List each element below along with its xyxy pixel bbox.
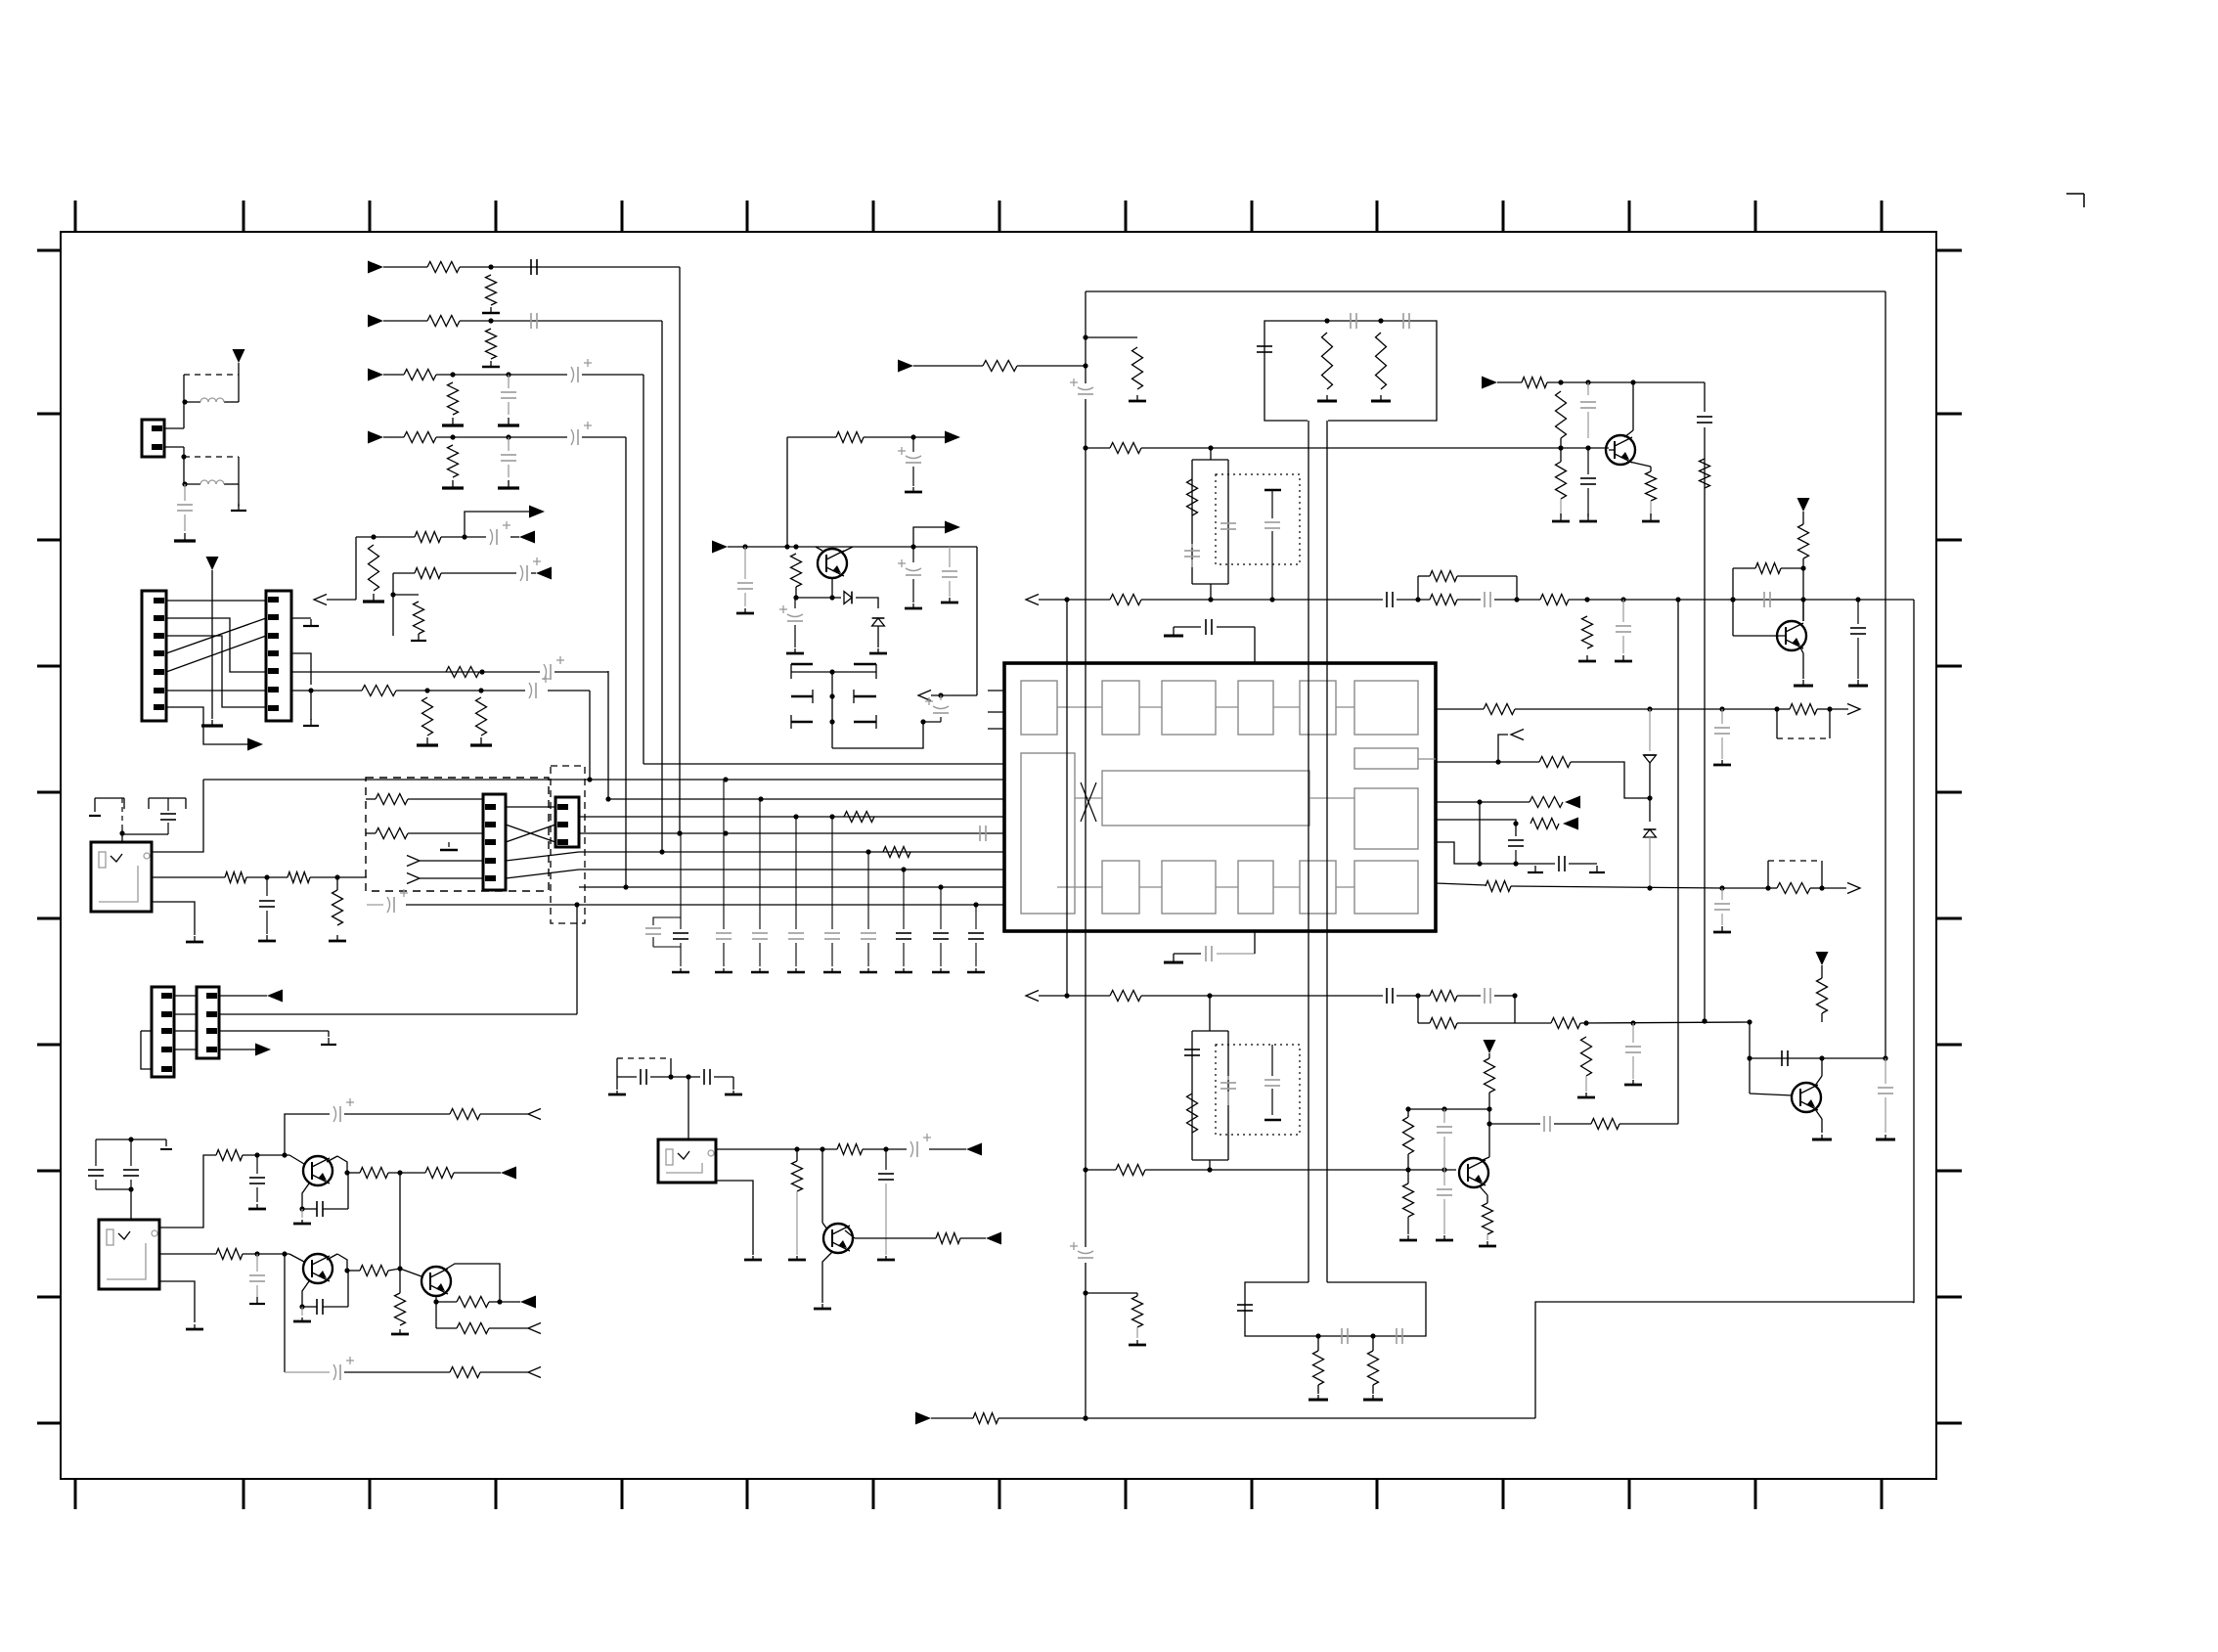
ground J1 — [186, 936, 203, 942]
ground C107 — [174, 533, 196, 541]
ground R112 — [411, 634, 426, 641]
IC block amp2 — [1162, 861, 1216, 914]
resistor R128 — [1522, 378, 1547, 388]
resistor R167 — [450, 1367, 480, 1378]
wire 705 mid — [396, 690, 525, 692]
capacitor C145 — [1220, 1076, 1236, 1105]
wire row1196 — [1086, 1169, 1116, 1171]
capacitor C136 — [1764, 592, 1770, 607]
wire row613d — [1494, 597, 1540, 602]
wire row1282 — [243, 1251, 289, 1256]
capacitor C175 — [160, 798, 176, 834]
resistor R147 — [1483, 1203, 1493, 1234]
capacitor C129 — [1220, 523, 1236, 529]
switch bracket upper2 — [149, 798, 186, 809]
wire J3 gnd leg — [716, 1181, 753, 1255]
wire row2 — [460, 318, 662, 323]
wire row613e — [1569, 597, 1914, 602]
resistor R141 — [1581, 1037, 1592, 1076]
ground row883a — [1528, 866, 1543, 872]
resistor R118 — [1700, 459, 1710, 488]
capacitor C115 — [751, 799, 769, 972]
wire row908b — [1722, 885, 1771, 890]
inv ground filter2 — [1264, 1119, 1281, 1122]
wire power loop upper — [182, 375, 239, 405]
resistor R152 — [973, 1413, 998, 1424]
dashed box B — [551, 766, 585, 923]
resistor R122 — [983, 361, 1017, 372]
ground C171 — [786, 648, 804, 653]
wire J2 up out — [159, 1155, 216, 1228]
IC row908 — [1436, 883, 1486, 885]
capacitor C104 polarized — [571, 359, 643, 382]
wire pin2 down — [164, 447, 187, 460]
wire Q3 collector row — [1489, 1123, 1540, 1125]
resistor R163 — [360, 1266, 388, 1276]
wire harness pin6 — [166, 690, 266, 692]
wire Q4 node — [1821, 1013, 1823, 1022]
ground Q6 emitter — [293, 1307, 311, 1321]
zener D4 — [872, 618, 885, 626]
resistor R126 — [1540, 595, 1569, 605]
ground R156 — [329, 935, 346, 941]
open arrow row613 — [1026, 595, 1067, 605]
arrow Q8 — [986, 1232, 1001, 1245]
open arrow to CN pin1 — [314, 595, 356, 605]
wire row447c — [864, 434, 945, 439]
transistor Q3 — [1459, 1158, 1488, 1187]
open arrow branch 751 — [1498, 730, 1524, 763]
wire CN103 pin4 row — [291, 653, 314, 693]
wire row1199c — [454, 1172, 501, 1174]
wire J3 stem — [688, 1077, 689, 1139]
capacitor C125 — [1257, 346, 1272, 352]
wire CN103 pin5 row — [291, 669, 540, 674]
resistor R138 — [1768, 883, 1825, 894]
ground J3 leg — [744, 1256, 762, 1260]
wire D4 gnd — [877, 626, 879, 647]
open arrow row711 — [918, 691, 931, 701]
ground J3b — [725, 1077, 742, 1094]
wire row1018a — [1067, 991, 1383, 1002]
input arrow row391 — [1482, 377, 1522, 389]
ground C170 — [905, 487, 922, 492]
wire to connector pin1 — [164, 402, 184, 428]
wire Q1 collector — [1624, 382, 1633, 437]
wire row1149b — [1619, 1123, 1678, 1125]
ground mid-left — [201, 720, 223, 726]
IC block out1 — [1354, 681, 1418, 735]
wire row1082 — [1750, 1055, 1885, 1060]
resistor R149 — [1817, 978, 1828, 1013]
wire row1331b — [489, 1301, 520, 1303]
wire Q9 collector up — [786, 437, 788, 547]
wire cn rows4 — [174, 1049, 255, 1050]
capacitor C164 polarized — [285, 1357, 450, 1380]
wire caps join — [96, 1186, 134, 1191]
wire row447b — [787, 436, 836, 438]
resistor R171 — [836, 432, 864, 443]
capacitor C166 — [704, 1069, 710, 1085]
resistor R159 — [450, 1109, 480, 1120]
connector CN101 — [142, 420, 164, 457]
wire row1299 — [347, 1270, 360, 1272]
IC block flt2 — [1238, 861, 1273, 914]
transistor Q1 — [1606, 435, 1635, 465]
arrow Q9 out — [913, 527, 945, 547]
connector CN103 — [266, 591, 291, 721]
resistor R106 — [448, 382, 459, 415]
ground row883b — [1589, 866, 1605, 872]
capacitor C138 — [1508, 840, 1524, 867]
wire row374 — [1017, 365, 1086, 367]
dotted box filter1 — [1216, 474, 1300, 564]
connector CN102 — [142, 591, 166, 721]
resistor R132 — [1798, 524, 1809, 558]
resistor R157 — [366, 828, 408, 839]
wire Q2 emitter — [1800, 647, 1803, 679]
bus wire row 925 — [406, 902, 1004, 907]
wire filter top loop — [1192, 448, 1228, 600]
resistor R116 — [476, 697, 487, 736]
wire Q5 base — [289, 1155, 304, 1164]
wire Q7 emitter — [433, 1296, 438, 1305]
input arrow row2 — [368, 315, 427, 328]
wire rail to V1957 — [1913, 1302, 1914, 1303]
wire vertical V1091 — [1064, 597, 1069, 998]
corner registration mark — [2066, 194, 2084, 207]
resistor R153 — [1132, 1293, 1143, 1327]
ground R116 — [470, 737, 492, 745]
resistor R124 — [1187, 479, 1198, 515]
arrow Q9 out tip — [945, 521, 960, 534]
open arrow row1358 — [528, 1323, 541, 1334]
resistor R154 — [225, 872, 246, 883]
wire J3 top row — [617, 1074, 733, 1079]
wire row1018d — [1494, 993, 1518, 998]
wire v1550 — [1515, 824, 1517, 836]
IC block amp1 — [1162, 681, 1216, 735]
resistor R120 — [1376, 333, 1387, 389]
capacitor C174 polarized — [925, 695, 949, 722]
wire Q9 stub — [816, 547, 853, 552]
ground C172 — [905, 603, 922, 608]
top edge tick marks — [75, 201, 1882, 232]
capacitor C172 polarized — [898, 547, 921, 603]
page border frame — [61, 232, 1936, 1479]
wire column D — [623, 437, 628, 890]
wire Q1 base — [1609, 449, 1615, 451]
capacitor C144 — [1184, 1049, 1200, 1055]
wire Q4 base riser — [1747, 1022, 1752, 1094]
capacitor C160 — [302, 1201, 348, 1217]
open arrow row1403 — [528, 1367, 541, 1378]
capacitor C141 — [1387, 988, 1393, 1004]
capacitor C155 — [259, 877, 275, 934]
resistor R142 — [1187, 1094, 1198, 1133]
bus wire row 781 — [643, 763, 1004, 765]
dashed loop R138 — [1768, 861, 1822, 888]
resistor R135 — [1530, 797, 1563, 808]
resistor R148 — [1403, 1170, 1414, 1217]
power arrow bottom — [915, 1412, 973, 1425]
capacitor C131 — [1387, 592, 1393, 607]
transistor Q3 emitter — [1480, 1186, 1487, 1203]
ground R131 — [1642, 501, 1660, 521]
wire Q6 emitter — [299, 1281, 309, 1310]
ground C149 — [1436, 1235, 1453, 1240]
input arrow Q9 — [712, 541, 818, 554]
arrow rec B — [536, 567, 552, 580]
wire row613b — [1397, 597, 1430, 602]
ground pin4 branch — [303, 691, 319, 726]
wire row4 — [436, 434, 567, 439]
ground power loop — [231, 484, 246, 511]
big box right edge — [1883, 291, 1887, 1061]
wire row1181 — [243, 1152, 289, 1157]
ground bypass bottom — [1164, 954, 1183, 962]
ground C140 — [1713, 926, 1731, 932]
wire v446 — [435, 1302, 437, 1328]
resistor R170 — [936, 1233, 960, 1244]
wire Q4 emitter — [1815, 1109, 1822, 1133]
capacitor C120 — [932, 887, 950, 972]
capacitor C124 — [1697, 417, 1712, 423]
resistor R121 — [1132, 347, 1143, 389]
input arrow row1 — [368, 261, 427, 274]
ground R121 — [1129, 395, 1146, 401]
arrow row447 — [945, 431, 960, 444]
wire Q2 coll node — [1800, 558, 1805, 621]
wire vertical V1957 — [1913, 600, 1915, 1303]
power rail bottom — [998, 1415, 1535, 1420]
dashed loop R138a — [1777, 709, 1830, 738]
power symbol Q2 — [1797, 498, 1810, 524]
input arrow row3 — [368, 369, 404, 381]
wire row1199 — [347, 1172, 360, 1174]
resistor R114 — [362, 686, 396, 696]
capacitor C133 — [1616, 600, 1631, 653]
capacitor C134 — [1580, 382, 1596, 438]
IC row845 — [1436, 820, 1519, 826]
resistor R140 — [1551, 1018, 1580, 1029]
ground C168 — [877, 1256, 895, 1260]
ground R106 — [442, 418, 464, 425]
ground R153 — [1129, 1327, 1146, 1345]
resistor R133 — [1733, 563, 1803, 574]
wire Q6 base — [289, 1254, 304, 1262]
wire row738 — [923, 721, 941, 723]
capacitor C113 w/ loop — [645, 833, 689, 972]
resistor R150 — [1313, 1336, 1324, 1385]
arrow J3 — [966, 1143, 982, 1156]
ground C139a — [1713, 760, 1731, 765]
resistor R146 — [1591, 1119, 1619, 1130]
wire row1199b — [388, 1170, 425, 1175]
IC block control — [1021, 753, 1075, 914]
diode D1 — [1644, 709, 1657, 763]
capacitor C109 polarized — [520, 558, 541, 581]
wire C160 up — [344, 1170, 349, 1209]
resistor R127 — [1582, 616, 1593, 648]
wire v1513 — [1477, 802, 1482, 867]
jack J2 — [99, 1220, 159, 1289]
transistor Q2 — [1777, 621, 1806, 650]
wire J3 row2 — [863, 1146, 907, 1151]
capacitor C165 — [641, 1069, 646, 1085]
wire cn loop — [141, 1031, 152, 1069]
resistor R143 — [1116, 1165, 1145, 1176]
wire row458 — [1086, 447, 1110, 449]
resistor R111 — [415, 568, 441, 579]
inductor L102 — [200, 480, 224, 484]
wire row1018b — [1397, 993, 1430, 998]
wire vertical V1357 — [1326, 421, 1328, 1282]
ground R108 — [442, 480, 464, 488]
ground R120 — [1371, 395, 1391, 401]
wire J1 row897 — [246, 874, 288, 879]
ground R127 — [1578, 655, 1596, 661]
IC block vref — [1354, 788, 1418, 849]
switch bracket upper — [89, 798, 124, 816]
capacitor C171 polarized — [779, 598, 803, 647]
power symbol B+ top-left — [233, 349, 245, 375]
ground C162 — [249, 1297, 265, 1304]
crossover X1 — [506, 807, 555, 842]
resistor R123 — [1110, 443, 1141, 454]
open arrow svc2 — [407, 873, 483, 884]
capacitor C151 — [1878, 1058, 1893, 1133]
wire column A — [677, 267, 682, 836]
wire rec rowB mid — [441, 572, 516, 574]
wire v999 — [976, 547, 978, 695]
transistor Q8 — [823, 1224, 853, 1253]
IC internal links — [1057, 707, 1436, 887]
capacitor C156 polarized — [367, 889, 408, 913]
ground D4 — [869, 648, 887, 653]
capacitor C163 — [302, 1299, 348, 1315]
ground C137 — [1848, 680, 1868, 686]
wire column B — [659, 321, 664, 855]
ground C155 — [258, 935, 276, 941]
switch contacts — [791, 664, 876, 748]
wire column E — [607, 671, 609, 799]
resistor R117b — [844, 812, 874, 823]
wire row1046 — [1515, 1022, 1551, 1024]
ground R147 — [1479, 1234, 1496, 1246]
ground svc — [440, 842, 458, 850]
capacitor C170 polarized — [898, 437, 921, 486]
dashed box service — [366, 778, 549, 891]
wire cn rows2 — [174, 1013, 577, 1015]
ground Q2 — [1794, 680, 1813, 686]
wire power loop lower — [182, 457, 239, 487]
resistor R172 — [791, 554, 802, 587]
resistor R117a — [366, 794, 408, 805]
wire 705 corner — [548, 691, 590, 780]
wire vertical V1110 — [1083, 291, 1087, 1421]
IC block core — [1102, 771, 1309, 826]
IC bypass cap bottom — [1174, 931, 1255, 961]
inductor L101 — [200, 398, 224, 402]
input arrow row4 — [368, 431, 404, 444]
arrow row1199 — [501, 1167, 516, 1180]
capacitor C128 — [1184, 544, 1200, 567]
capacitor C127 — [1403, 313, 1409, 329]
resistor R104 — [486, 329, 497, 359]
power symbol Q4 — [1816, 952, 1829, 978]
switch bottom link — [832, 719, 926, 748]
wire row1358b — [489, 1327, 528, 1329]
IC block eq1 — [1102, 681, 1139, 735]
capacitor C111 polarized — [529, 675, 550, 698]
dashed drop J1 — [119, 798, 124, 842]
capacitor C137 — [1850, 600, 1866, 679]
wire riser 590 — [574, 902, 579, 1014]
transistor Q4 — [1792, 1083, 1821, 1112]
wire row1196b — [1145, 1167, 1456, 1172]
wire Q2 collector — [1802, 600, 1804, 621]
capacitor C140 — [1714, 888, 1730, 925]
capacitor C169 — [737, 547, 753, 606]
capacitor C154 — [1397, 1328, 1402, 1344]
ground R150 — [1309, 1385, 1328, 1400]
wire diode chain — [1647, 763, 1652, 822]
resistor R139 — [1430, 991, 1457, 1002]
open arrow svc1 — [407, 856, 483, 867]
capacitor C158 — [123, 1139, 139, 1189]
transistor Q7 — [421, 1267, 451, 1296]
wire row1139 — [480, 1113, 528, 1115]
connector CN107 — [555, 797, 579, 847]
wire Q7 collector — [445, 1264, 503, 1305]
wire J2 sleeve — [159, 1281, 195, 1322]
arrow row845 — [1563, 818, 1578, 830]
wire vertical V1338 — [1308, 421, 1309, 1282]
ground cn3 — [321, 1038, 336, 1045]
dashed link upper — [184, 374, 239, 376]
resistor R119 — [1322, 333, 1333, 389]
diode D2 — [1644, 829, 1657, 891]
wire row883 — [1436, 842, 1555, 864]
ground R115 — [417, 737, 438, 745]
wire row1358 — [436, 1327, 457, 1329]
wire box bottom nodes — [1315, 1333, 1375, 1338]
wire vertical mid-left — [211, 585, 213, 719]
open arrow row908 — [1822, 883, 1860, 894]
ground C159 — [248, 1204, 266, 1209]
ground C105 — [498, 480, 519, 488]
wire CN103 pin6 row — [291, 688, 484, 692]
wire vertical V1716 — [1675, 597, 1680, 1124]
resistor R125 — [1430, 595, 1457, 605]
ground C169 — [736, 608, 754, 613]
ground C103 — [498, 418, 519, 425]
resistor R115 — [422, 697, 433, 736]
IC block eq2 — [1102, 861, 1139, 914]
wire rec rowB end — [531, 572, 536, 574]
capacitor C146 — [1264, 1045, 1280, 1115]
resistor R131 — [1646, 471, 1657, 501]
IC block sw2 — [1300, 861, 1336, 914]
ground R151 — [1363, 1385, 1383, 1400]
capacitor C148 — [1544, 1116, 1550, 1132]
wire row820 — [1480, 801, 1530, 803]
IC row779 — [1436, 759, 1539, 764]
ground CN103 pin2 — [291, 618, 319, 626]
wire filter2 loop — [1192, 996, 1228, 1170]
capacitor C143 — [1625, 1023, 1641, 1079]
